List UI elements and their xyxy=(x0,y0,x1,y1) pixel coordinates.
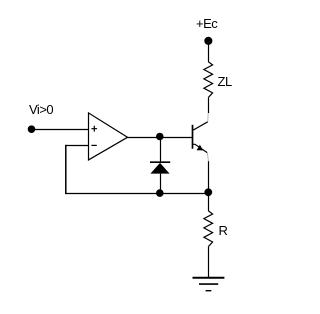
node junction output xyxy=(156,133,164,141)
node input terminal Vi xyxy=(28,125,36,133)
resistor R xyxy=(204,211,213,246)
node junction emitter xyxy=(204,188,212,196)
op-amp U1 xyxy=(89,113,128,160)
label Vi>0 xyxy=(29,103,53,116)
transistor Q1 xyxy=(193,113,209,161)
wire collector lead xyxy=(208,97,210,113)
wire feedback vertical xyxy=(65,145,67,194)
node junction diode anode xyxy=(156,189,164,197)
resistor ZL xyxy=(204,62,213,97)
wire non-inverting input xyxy=(32,129,89,131)
diode D1 xyxy=(150,162,170,193)
label R xyxy=(219,224,228,237)
ground xyxy=(193,278,225,291)
wire emitter lead xyxy=(208,161,210,193)
wire emitter node to R xyxy=(208,194,210,212)
wire supply to ZL xyxy=(208,41,210,62)
wire diode branch upper xyxy=(160,137,162,162)
wire op-amp output to base xyxy=(127,137,192,139)
power terminal +Ec node xyxy=(204,37,212,45)
label ZL xyxy=(218,75,232,88)
wire feedback bottom xyxy=(65,193,208,195)
label +Ec xyxy=(196,17,217,30)
wire R to ground xyxy=(208,246,210,277)
wire inverting input xyxy=(65,145,88,147)
